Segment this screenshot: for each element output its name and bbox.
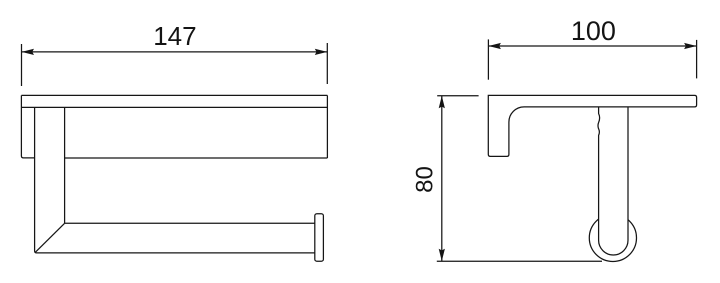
dimension 80 bottom extension line bbox=[437, 260, 602, 262]
wall plate left edge bbox=[21, 95, 34, 157]
shelf bottom edge bbox=[65, 157, 328, 159]
bar top edge bbox=[65, 222, 315, 224]
svg-text:147: 147 bbox=[153, 21, 196, 51]
dimension 100 right extension line bbox=[696, 40, 698, 79]
arrowhead 147 left bbox=[22, 49, 35, 55]
dimension 100 line bbox=[488, 45, 696, 47]
dimension 147 right extension line bbox=[326, 43, 328, 84]
arrowhead 80 top bbox=[439, 96, 445, 109]
shelf right edge bbox=[326, 95, 328, 158]
arrowhead 80 bottom bbox=[439, 249, 445, 262]
arrowhead 100 left bbox=[488, 43, 501, 49]
end cap disc (edge-on) bbox=[315, 214, 324, 262]
dimension 80 top extension line bbox=[437, 95, 478, 97]
arrowhead 147 right bbox=[315, 49, 328, 55]
mitre diagonal bbox=[35, 223, 64, 252]
dimension 147 left extension line bbox=[21, 44, 23, 86]
post left edge and bar bottom edge bbox=[35, 107, 315, 253]
shelf and wall bracket outline bbox=[488, 95, 696, 156]
dimension 100 left extension line bbox=[487, 39, 489, 79]
post right edge bbox=[64, 107, 66, 223]
roll bar outline with rounded end bbox=[598, 107, 628, 255]
dimension 80 line bbox=[441, 96, 443, 261]
arrowhead 100 right bbox=[684, 43, 697, 49]
svg-text:100: 100 bbox=[571, 16, 616, 46]
svg-text:80: 80 bbox=[412, 166, 439, 193]
shelf top edge bbox=[21, 94, 327, 96]
roll bar body mask bbox=[599, 107, 628, 255]
shelf front underside edge bbox=[21, 106, 327, 108]
dimension 147 line bbox=[22, 51, 328, 53]
end cap disc (face-on) bbox=[589, 214, 636, 261]
